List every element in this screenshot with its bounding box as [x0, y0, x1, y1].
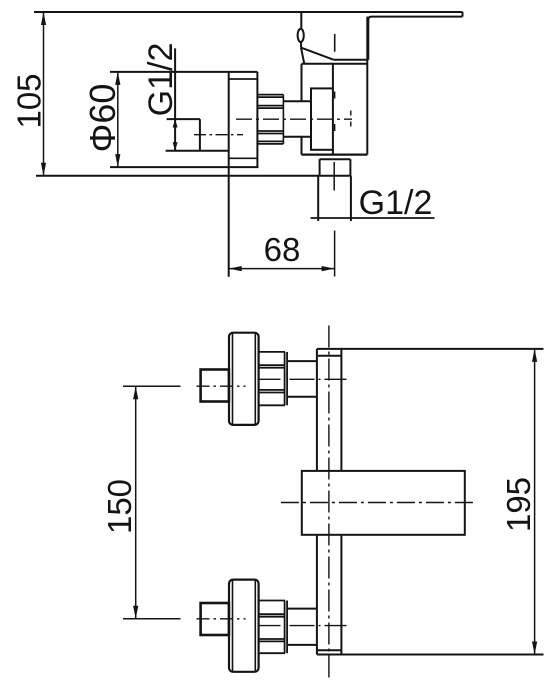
- dim 150 arrows: [133, 386, 138, 399]
- body right edge: [366, 17, 368, 155]
- mixer body front: [302, 471, 465, 535]
- lever neck left edge: [301, 48, 304, 64]
- main axis centerline: [236, 118, 352, 120]
- lever neck slant: [301, 48, 334, 60]
- stem top knob: [287, 360, 317, 362]
- hidden dash c: [350, 111, 352, 116]
- lever link vertical: [300, 12, 302, 29]
- wheel top edge + phi60 top extension: [110, 71, 257, 73]
- outlet pipe left edge: [317, 176, 319, 221]
- G1/2 arrow down: [173, 142, 178, 150]
- dim 105 arrows: [41, 12, 46, 25]
- riser pipe left edge upper: [316, 349, 318, 471]
- dim 68 arrows: [229, 266, 242, 271]
- riser bottom edge + dim 195 bottom extension: [317, 654, 544, 656]
- body top edge: [302, 63, 368, 65]
- body front edge lower: [332, 150, 334, 155]
- stem bottom knob: [287, 608, 317, 610]
- wheel chamfer bottom: [229, 157, 258, 159]
- G1/2 arrow up: [173, 119, 178, 127]
- hidden dash d: [350, 122, 352, 127]
- port centerline: [194, 134, 243, 136]
- riser top joint line: [318, 355, 342, 357]
- stem bottom edge: [283, 136, 311, 138]
- knurl bottom knob: [259, 601, 288, 654]
- body front edge upper: [332, 64, 334, 89]
- top axis extension (dim 150): [123, 385, 181, 387]
- wheel left edge + 68 extension: [228, 72, 230, 277]
- port top edge: [167, 118, 200, 120]
- dim 105 top extension + lever top edge: [34, 11, 463, 13]
- svg-text:G1/2: G1/2: [142, 43, 180, 117]
- outlet nut left edge: [319, 159, 321, 176]
- svg-text:G1/2: G1/2: [359, 184, 433, 222]
- top stem centerline: [259, 378, 347, 380]
- knob housing left edge + G1/2 dim line: [174, 48, 176, 150]
- hidden dash b: [334, 124, 336, 131]
- svg-text:150: 150: [101, 479, 138, 534]
- top axis centerline: [197, 385, 246, 387]
- dim 195 arrows: [532, 349, 537, 362]
- knurl top knob: [259, 352, 288, 405]
- body centerline: [281, 502, 475, 504]
- riser top edge + dim 195 top extension: [317, 348, 544, 350]
- riser pipe right edge lower: [340, 535, 342, 655]
- wheel chamfer lines: [232, 580, 234, 671]
- lever base line: [334, 59, 369, 61]
- dim 105 bottom extension + nut bottom line: [36, 175, 351, 177]
- lever bar bottom edge: [368, 17, 462, 60]
- body left edge lower: [301, 137, 303, 155]
- riser pipe right edge upper: [340, 349, 342, 471]
- knurl end vertical: [282, 95, 284, 144]
- riser bottom joint line: [317, 649, 342, 651]
- dim 150 dimension line: [135, 386, 137, 619]
- phi60 dimension line: [117, 72, 119, 167]
- body left edge upper: [301, 64, 303, 102]
- wheel chamfer lines: [232, 334, 234, 425]
- port inner vertical: [199, 119, 201, 151]
- bottom stem centerline: [259, 625, 347, 627]
- outlet centerline: [333, 162, 335, 191]
- lever link lower: [300, 42, 302, 48]
- svg-text:Φ60: Φ60: [82, 84, 123, 153]
- wheel bottom edge + phi60 bottom extension: [110, 166, 259, 168]
- lever right end cap: [462, 12, 464, 17]
- dim 68 dimension line: [229, 268, 335, 270]
- dim 105 dimension line: [43, 12, 45, 176]
- riser centerline: [328, 326, 330, 681]
- outlet nut right edge: [349, 159, 351, 176]
- svg-text:68: 68: [264, 231, 301, 268]
- lever pivot ellipse: [298, 29, 304, 42]
- spindle square bottom: [201, 603, 229, 635]
- svg-text:105: 105: [11, 73, 48, 128]
- valve center tick: [334, 34, 336, 52]
- riser pipe left edge lower: [316, 535, 318, 655]
- outlet nut top edge: [320, 158, 351, 160]
- knob housing bottom edge: [166, 150, 229, 152]
- wheel right edge: [256, 72, 258, 167]
- phi60 arrows: [115, 72, 120, 85]
- bottom axis extension (dim 150): [123, 618, 181, 620]
- dim 195 dimension line: [534, 349, 536, 655]
- knurl ring lines: [257, 95, 283, 144]
- bottom axis centerline: [197, 618, 246, 620]
- G1/2 leader line: [311, 217, 435, 219]
- cartridge flange: [311, 88, 333, 149]
- dim 68 right extension: [334, 231, 336, 277]
- stem top edge: [283, 100, 311, 102]
- svg-text:195: 195: [500, 477, 537, 532]
- wheel chamfer top: [229, 78, 258, 80]
- spindle square top: [201, 370, 229, 402]
- outlet pipe right edge: [350, 176, 352, 221]
- body bottom edge: [302, 153, 368, 155]
- wheel top knob: [229, 333, 259, 425]
- hidden dash a: [334, 92, 336, 99]
- wheel bottom knob: [229, 580, 259, 672]
